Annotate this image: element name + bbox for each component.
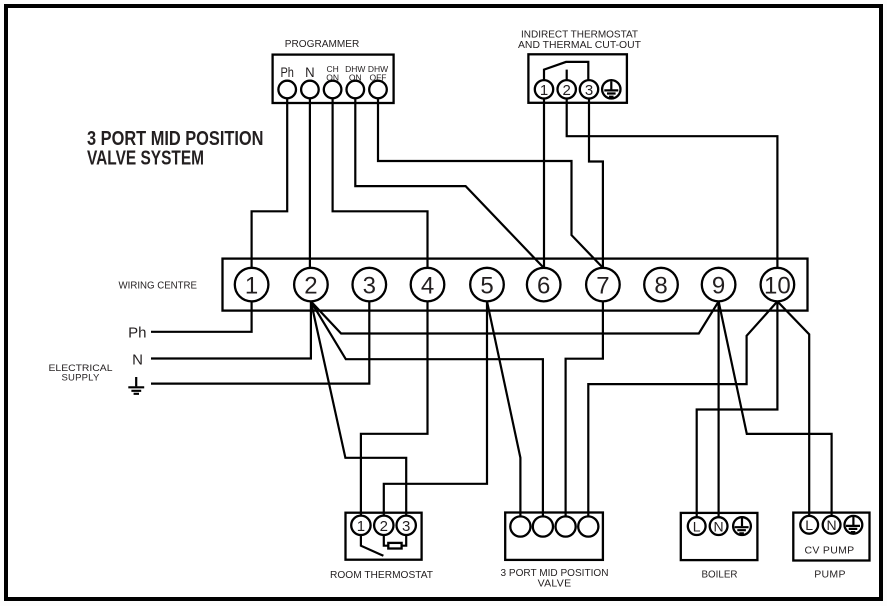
svg-text:3: 3 [363, 272, 376, 299]
svg-text:2: 2 [380, 518, 388, 535]
svg-text:WIRING CENTRE: WIRING CENTRE [119, 281, 198, 292]
wire indirect thermostat 3 to wiring centre 7 [589, 99, 603, 268]
svg-text:CV PUMP: CV PUMP [805, 545, 855, 557]
wire programmer Ph to wiring centre 1 [252, 98, 288, 268]
3 port valve box [501, 513, 609, 590]
valve terminal 4 [578, 516, 598, 536]
room thermostat terminal 2 [374, 516, 393, 535]
room thermostat terminal 3 [397, 516, 416, 535]
wire indirect thermostat 2 to wiring centre 10 [567, 99, 778, 268]
wire wiring centre 9 to pump N [719, 301, 832, 516]
wiring centre terminal 1 [235, 268, 269, 302]
svg-text:3: 3 [402, 518, 410, 535]
wiring centre terminal 8 [644, 268, 678, 302]
boiler earth terminal [733, 517, 751, 535]
electrical supply label [49, 363, 113, 384]
svg-text:7: 7 [596, 272, 609, 299]
wiring centre terminal 5 [470, 268, 504, 302]
wire programmer CH ON to wiring centre 4 [333, 98, 428, 268]
wiring centre terminal 7 [586, 268, 620, 302]
svg-text:PUMP: PUMP [814, 569, 846, 581]
wire wiring centre 2 to valve terminal 2 [311, 301, 543, 516]
svg-text:BOILER: BOILER [702, 569, 738, 581]
svg-text:N: N [827, 517, 837, 533]
svg-text:VALVE SYSTEM: VALVE SYSTEM [87, 148, 204, 170]
wire programmer DHW OFF to wiring centre 7 [378, 98, 603, 268]
svg-text:2: 2 [304, 272, 317, 299]
svg-text:ON: ON [349, 73, 362, 83]
svg-text:4: 4 [421, 272, 434, 299]
pump earth terminal [845, 516, 863, 534]
wire supply earth to wiring centre 3 [151, 301, 369, 383]
wiring centre box [119, 259, 808, 311]
programmer terminal DHW OFF [368, 64, 388, 98]
programmer box [273, 38, 394, 103]
svg-text:SUPPLY: SUPPLY [62, 373, 100, 384]
svg-text:1: 1 [540, 82, 548, 99]
svg-text:ROOM THERMOSTAT: ROOM THERMOSTAT [330, 569, 434, 581]
svg-text:9: 9 [712, 272, 725, 299]
boiler terminal N [710, 517, 728, 535]
wire indirect thermostat 1 to wiring centre 6 [543, 99, 545, 268]
svg-text:Ph: Ph [280, 65, 294, 80]
indirect thermostat switch [544, 62, 588, 80]
svg-text:ON: ON [326, 73, 339, 83]
room thermostat box [330, 513, 434, 581]
wiring centre terminal 10 [761, 268, 795, 302]
boiler box [681, 513, 758, 581]
wire wiring centre 4 to room thermostat 1 [361, 301, 428, 515]
programmer terminal Ph [278, 65, 296, 98]
svg-text:N: N [305, 65, 315, 80]
wire wiring centre 5 to room thermostat 2 [384, 301, 487, 515]
room thermostat terminal 1 [351, 516, 370, 535]
boiler terminal L [688, 517, 706, 535]
wire wiring centre 7 to valve terminal 3 [566, 301, 603, 516]
indirect thermostat terminal 3 [580, 80, 598, 99]
svg-text:10: 10 [764, 272, 791, 299]
svg-text:AND THERMAL CUT-OUT: AND THERMAL CUT-OUT [518, 39, 642, 51]
wire wiring centre 10 to valve terminal 4 [588, 301, 777, 516]
pump box [793, 513, 869, 581]
supply earth symbol [128, 377, 144, 394]
programmer terminal N [301, 65, 319, 98]
wiring centre terminal 6 [527, 268, 561, 302]
svg-text:2: 2 [563, 82, 571, 99]
programmer terminal DHW ON [345, 64, 365, 98]
pump terminal L [800, 516, 818, 534]
programmer terminal CH ON [324, 64, 342, 98]
indirect thermostat box [518, 29, 642, 103]
valve terminal 3 [556, 516, 576, 536]
svg-text:N: N [132, 352, 143, 369]
svg-text:5: 5 [480, 272, 493, 299]
wire wiring centre 5 to valve terminal 1 [487, 301, 520, 516]
indirect thermostat terminal 1 [535, 80, 553, 99]
room thermostat switch [361, 535, 384, 556]
indirect thermostat terminal 2 [558, 80, 576, 99]
svg-text:L: L [693, 518, 701, 534]
svg-text:Ph: Ph [128, 325, 146, 342]
svg-text:PROGRAMMER: PROGRAMMER [285, 38, 360, 50]
svg-text:8: 8 [654, 272, 667, 299]
wire supply N to wiring centre 2 [151, 301, 311, 358]
svg-text:1: 1 [245, 272, 258, 299]
svg-text:3: 3 [585, 82, 593, 99]
svg-text:N: N [714, 518, 724, 534]
room thermostat accelerator resistor [384, 535, 406, 549]
svg-text:6: 6 [537, 272, 550, 299]
svg-text:VALVE: VALVE [538, 578, 572, 590]
wire wiring centre 2 to room thermostat 3 [311, 301, 406, 515]
indirect thermostat switch contact stub [566, 70, 568, 81]
svg-text:1: 1 [357, 518, 365, 535]
wire wiring centre 2 to wiring centre 9 neutral link [311, 301, 719, 333]
indirect thermostat earth terminal [602, 80, 620, 98]
wiring centre terminal 9 [702, 268, 736, 302]
wire supply Ph to wiring centre 1 [151, 301, 252, 331]
wire programmer N to wiring centre 2 [309, 98, 311, 268]
pump terminal N [823, 516, 841, 534]
wiring centre terminal 3 [353, 268, 387, 302]
wire wiring centre 9 to boiler N [717, 301, 719, 517]
wiring centre terminal 2 [294, 268, 328, 302]
wire wiring centre 10 to boiler L [697, 301, 778, 517]
wiring centre terminal 4 [411, 268, 445, 302]
wire wiring centre 10 to pump L [777, 301, 809, 516]
valve terminal 2 [533, 516, 553, 536]
wire programmer DHW ON to wiring centre 6 [355, 98, 543, 268]
title [87, 128, 264, 170]
valve terminal 1 [510, 516, 530, 536]
svg-text:OFF: OFF [370, 73, 387, 83]
svg-text:L: L [805, 517, 813, 533]
